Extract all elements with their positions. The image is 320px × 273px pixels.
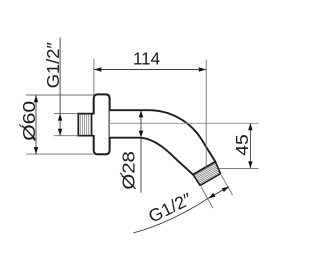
dimension 45 extension line (bottom) — [219, 167, 259, 169]
dimension O60 line — [35, 96, 37, 155]
tip thread G1/2 outline — [193, 162, 221, 186]
centerline / 45-top extension — [109, 122, 259, 124]
dimension G1/2 (tip) extension lines — [201, 187, 213, 208]
dimension 114 extension lines — [93, 59, 95, 94]
svg-text:Ø60: Ø60 — [19, 100, 39, 140]
svg-text:114: 114 — [133, 49, 160, 69]
wall-side pipe and thread outline — [78, 113, 94, 115]
O28 slash overshoot ticks — [134, 187, 136, 189]
svg-text:Ø28: Ø28 — [119, 151, 139, 190]
dimension G1/2 (tip) line + leader — [133, 198, 208, 233]
dimension O28 line with leader down — [140, 111, 142, 193]
shower arm tube outline — [110, 110, 216, 174]
dimension 114 line — [94, 69, 206, 71]
tip thread G1/2 hatch — [194, 163, 220, 184]
wall-side pipe fill — [78, 114, 94, 136]
wall flange (left edge interrupted by pipe) — [94, 94, 110, 154]
dimension G1/2 (wall) line + leader up — [59, 38, 61, 136]
svg-text:G1/2″: G1/2″ — [43, 42, 63, 88]
dimension 45 line — [249, 123, 251, 168]
thread end line — [91, 114, 93, 136]
wall-side thread G1/2 hatch — [80, 114, 88, 134]
svg-text:45: 45 — [232, 134, 252, 156]
O60 slash overshoot ticks — [33, 138, 35, 140]
dimension O60 extension lines — [26, 94, 94, 96]
dimension G1/2 (wall) extension lines — [54, 113, 79, 115]
